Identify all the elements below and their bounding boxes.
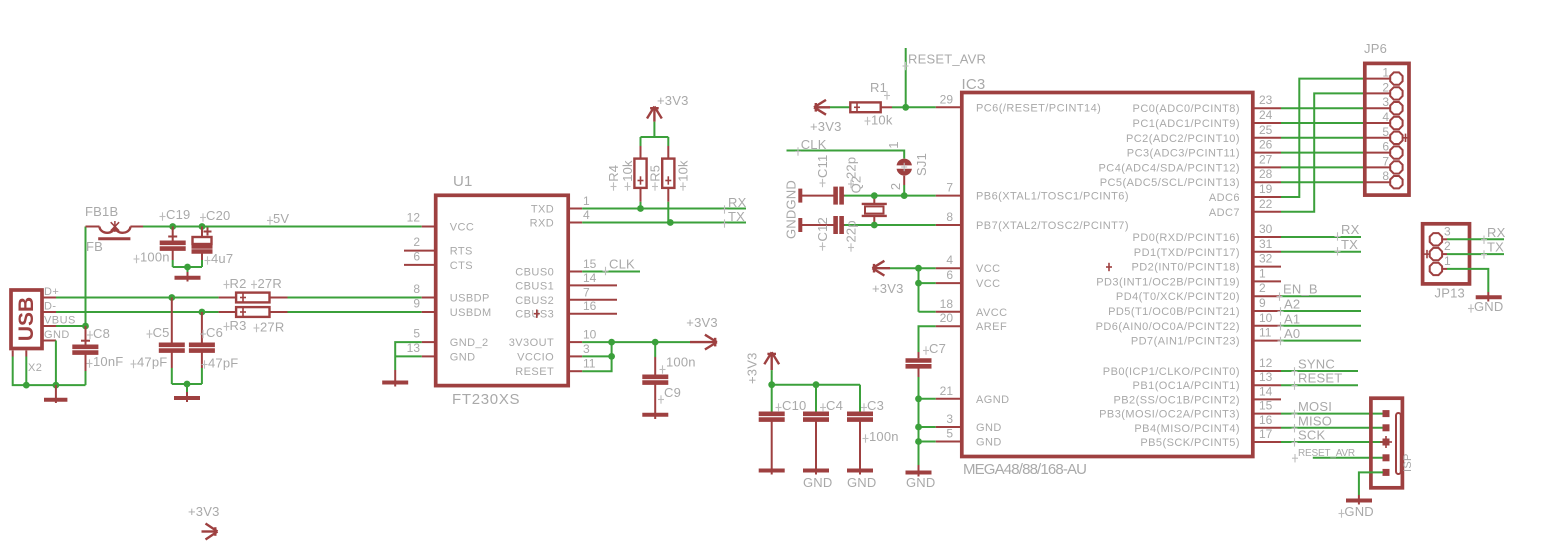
svg-text:PD2(INT0/PCINT18): PD2(INT0/PCINT18) [1131,262,1240,274]
svg-text:PD7(AIN1/PCINT23): PD7(AIN1/PCINT23) [1131,336,1240,348]
ground symbol under C10 [759,469,785,473]
IC3 pin 9 PD5 [1108,296,1281,318]
svg-text:9: 9 [1259,296,1266,310]
wire XTAL1 net [845,195,936,197]
svg-text:16: 16 [1259,413,1273,427]
svg-text:24: 24 [1259,108,1273,122]
junction D- / C6 [199,309,206,316]
IC3 pin 5 GND [936,427,1002,449]
svg-text:10: 10 [1259,311,1273,325]
svg-text:GND: GND [803,475,833,490]
svg-text:MISO: MISO [1298,413,1332,428]
junction bus C4 [813,381,820,388]
IC3 pin 7 PB6 [936,181,1129,203]
IC3 pin 21 AGND [936,384,1010,406]
ground symbol under C5 C6 [174,392,200,402]
svg-text:TX: TX [1487,240,1504,255]
svg-text:A1: A1 [1284,311,1300,326]
svg-text:A2: A2 [1284,297,1300,312]
svg-text:14: 14 [583,271,597,285]
label RESET_AVR at ISP [1292,448,1355,463]
svg-text:11: 11 [583,357,596,371]
svg-text:MOSI: MOSI [1298,399,1332,414]
svg-text:7: 7 [946,181,953,195]
svg-text:VCCIO: VCCIO [517,351,554,363]
svg-text:28: 28 [1259,167,1273,181]
svg-text:5: 5 [1382,125,1389,139]
svg-text:C12: C12 [815,217,830,241]
svg-text:2: 2 [1382,80,1389,94]
junction C9 tap [652,339,659,346]
svg-text:SCK: SCK [1298,428,1325,443]
IC3 pin 20 AREF [936,311,1007,333]
IC3 pin 14 PB2 [1113,384,1281,406]
JP6 pin 6 [1365,140,1403,159]
capacitor C8 10nF [72,326,123,371]
IC3 pin 25 PC2 [1126,123,1281,145]
svg-text:100n: 100n [666,355,696,370]
svg-text:C3: C3 [867,398,884,413]
ground symbol left of C12 [798,218,802,232]
svg-text:47pF: 47pF [137,355,167,370]
svg-text:PB7(XTAL2/TOSC2/PCINT7): PB7(XTAL2/TOSC2/PCINT7) [976,220,1129,232]
IC3 pin 13 PB1 [1133,370,1281,392]
supply +3V3 at VCC pins [872,261,904,296]
wire PC3 to JP6 pin6 [1281,152,1365,154]
ground symbol under C7 chain [906,465,936,490]
label A0 [1278,326,1301,345]
svg-text:PD1(TXD/PCINT17): PD1(TXD/PCINT17) [1134,247,1240,259]
svg-text:PD4(T0/XCK/PCINT20): PD4(T0/XCK/PCINT20) [1116,291,1240,303]
svg-text:ISP: ISP [1402,453,1414,472]
wire TX net pin31 [1281,251,1361,253]
svg-text:9: 9 [413,297,420,311]
U1 pin 14 CBUS1 [515,271,617,293]
wire CLK net at IC [787,151,905,159]
wire A2 net [1281,310,1361,312]
svg-text:21: 21 [940,384,954,398]
connector JP6 [1364,41,1409,195]
svg-text:PB6(XTAL1/TOSC1/PCINT6): PB6(XTAL1/TOSC1/PCINT6) [976,191,1129,203]
U1 pin 3 VCCIO [517,342,590,364]
svg-text:3: 3 [1444,224,1451,238]
svg-text:AGND: AGND [976,394,1010,406]
junction usb shield bus [23,382,30,389]
capacitor C20 4u7 polarized [192,208,234,266]
svg-text:5: 5 [413,327,420,341]
junction R4 RX [637,205,644,212]
svg-text:+3V3: +3V3 [657,93,689,108]
svg-text:5V: 5V [273,211,289,226]
svg-text:VBUS: VBUS [44,315,76,327]
svg-text:C4: C4 [826,398,843,413]
capacitor C3 100n [847,385,899,475]
svg-text:1: 1 [1259,266,1266,280]
junction VCC pin6 [915,280,922,287]
wire U1 gnd pins [395,342,422,370]
junction usb gnd pin bus [53,382,60,389]
svg-text:8: 8 [946,210,953,224]
svg-text:PB1(OC1A/PCINT1): PB1(OC1A/PCINT1) [1133,380,1240,392]
wire PC2 to JP6 pin5 [1281,137,1365,139]
svg-text:CBUS1: CBUS1 [515,280,554,292]
junction GND pin5 [915,438,922,445]
svg-text:CBUS3: CBUS3 [515,309,554,321]
svg-text:VCC: VCC [450,222,475,234]
svg-text:FB: FB [86,239,103,254]
svg-text:GND: GND [847,475,877,490]
capacitor C19 100n [134,207,191,265]
wire JP13 pin1 to gnd [1447,269,1488,292]
supply +3V3 right of U1 [686,315,718,350]
svg-text:PD0(RXD/PCINT16): PD0(RXD/PCINT16) [1133,232,1240,244]
ISP pad MISO [1383,424,1390,431]
ground symbol under JP13 [1468,292,1504,314]
junction SJ1 XTAL1 [901,192,908,199]
IC3 pin 31 PD1 [1134,237,1281,259]
label JP13 RX [1481,225,1506,244]
wire RX net from TXD [582,208,746,210]
label MOSI [1292,399,1333,418]
wire JP13 TX [1447,253,1504,255]
svg-text:GND: GND [976,437,1002,449]
wire PC1 to JP6 pin4 [1281,122,1365,124]
wire 3V3OUT net [582,342,690,371]
U1 pin 1 TXD [531,194,590,216]
svg-text:VCC: VCC [976,263,1001,275]
resistor R4 10k [606,146,647,209]
label TX [722,209,746,228]
JP6 pin 1 [1365,66,1403,85]
U1 pin 6 CTS [404,249,473,272]
svg-text:GND: GND [44,329,70,341]
capacitor C9 100n [642,342,695,419]
svg-text:RESET_AVR: RESET_AVR [908,52,986,67]
svg-text:7: 7 [583,285,590,299]
connector JP13 [1423,224,1470,301]
svg-text:+3V3: +3V3 [686,315,718,330]
IC3 pin 29 PC6 [936,92,1101,114]
solder jumper SJ1 [886,141,929,195]
svg-text:18: 18 [940,297,954,311]
connector ISP [1371,398,1414,488]
IC3 pin 28 PC5 [1100,167,1281,189]
wire AGND GND chain [919,377,936,465]
IC3 pin 4 VCC [936,253,1001,275]
svg-text:GND: GND [784,210,799,240]
svg-text:C9: C9 [664,385,681,400]
svg-text:ADC7: ADC7 [1209,207,1240,219]
svg-text:26: 26 [1259,138,1273,152]
svg-text:PB2(SS/OC1B/PCINT2): PB2(SS/OC1B/PCINT2) [1113,394,1240,406]
wire ISP gnd [1359,472,1383,495]
svg-text:8: 8 [413,282,420,296]
JP13 pin 1 [1430,254,1451,275]
svg-text:31: 31 [1259,237,1273,251]
JP13 pin 2 [1424,239,1451,260]
junction C19 C20 gnd [184,264,191,271]
svg-text:100n: 100n [869,429,899,444]
ISP pad SCK with origin cross [1380,436,1392,448]
capacitor C12 22p [802,216,859,252]
svg-text:23: 23 [1259,93,1273,107]
wire MOSI net to ISP [1281,413,1383,415]
capacitor C11 22p [802,155,859,205]
U1 pin 9 USBDM [413,297,491,320]
label EN_B [1277,282,1318,301]
svg-text:VCC: VCC [976,278,1001,290]
svg-text:RX: RX [1487,225,1506,240]
junction VBUS / 5V / C8 [82,323,89,330]
wire VCC net to pins 4 6 18 [890,268,936,312]
svg-text:PB5(SCK/PCINT5): PB5(SCK/PCINT5) [1140,437,1240,449]
svg-text:C7: C7 [929,341,946,356]
svg-text:1: 1 [583,194,590,208]
capacitor C6 47pF [189,312,239,370]
svg-text:GND: GND [1344,504,1374,519]
IC3 pin 30 PD0 [1133,222,1281,244]
capacitor C10 [759,385,807,475]
svg-text:ADC6: ADC6 [1209,192,1240,204]
svg-text:+3V3: +3V3 [872,281,904,296]
wire AREF to C7 [919,326,936,352]
U1 pin 10 3V3OUT [509,328,597,350]
svg-text:RESET: RESET [515,366,554,378]
svg-text:A0: A0 [1284,326,1300,341]
IC U1 FT230XS box [436,173,569,408]
svg-text:GND_2: GND_2 [450,337,489,349]
label SYNC [1292,357,1335,376]
label TX pin31 [1335,237,1359,256]
junction bus C10 [768,381,775,388]
wire ADC7 to JP6 pin2 [1281,93,1365,211]
junction GND pin3 [915,424,922,431]
svg-text:PB3(MOSI/OC2A/PCINT3): PB3(MOSI/OC2A/PCINT3) [1099,409,1240,421]
svg-text:30: 30 [1259,222,1273,236]
svg-text:47pF: 47pF [208,355,238,370]
IC3 pin 17 PB5 [1140,427,1281,449]
svg-text:EN_B: EN_B [1283,282,1318,297]
svg-text:15: 15 [583,257,597,271]
junction VCC pin4 [915,265,922,272]
ground symbol under C9 [642,413,668,417]
svg-text:RXD: RXD [530,218,555,230]
svg-text:IC3: IC3 [962,76,986,93]
label MISO [1292,413,1333,432]
svg-text:USBDM: USBDM [450,307,492,319]
IC3 pin 15 PB3 [1099,399,1281,421]
ground symbol under C4 [803,471,833,491]
svg-text:USB: USB [15,297,38,341]
IC3 pin 10 PD6 [1096,311,1281,333]
label SCK [1292,428,1326,447]
wire D+ after R2 to U1 [288,297,422,299]
svg-text:22p: 22p [844,220,859,242]
svg-text:16: 16 [583,299,597,313]
svg-text:10k: 10k [871,113,893,128]
IC3 pin 18 AVCC [936,297,1008,319]
usb connector X2 [11,286,76,374]
svg-text:RX: RX [1341,222,1360,237]
svg-text:3: 3 [583,342,590,356]
svg-text:GND: GND [976,422,1002,434]
svg-text:14: 14 [1259,384,1273,398]
svg-text:TX: TX [1341,237,1358,252]
svg-text:C20: C20 [206,208,230,223]
label CLK [603,257,636,276]
svg-text:4: 4 [1382,110,1389,124]
crystal Q2 [849,176,887,225]
supply +3V3 at R1 [810,100,842,134]
wire RESET_AVR net to ISP [1313,457,1383,459]
U1 pin 11 RESET [515,357,596,379]
resistor R5 10k [648,146,691,223]
svg-text:13: 13 [1259,370,1273,384]
capacitor C5 47pF [131,298,185,370]
svg-text:PC2(ADC2/PCINT10): PC2(ADC2/PCINT10) [1126,133,1240,145]
svg-text:4: 4 [946,253,953,267]
resistor R3 27R [219,307,288,334]
svg-text:RESET: RESET [1298,371,1342,386]
IC3 pin 1 PD3 [1096,266,1281,288]
svg-text:TX: TX [728,209,745,224]
wire C5 C6 to gnd [172,368,202,392]
svg-text:PC3(ADC3/PCINT11): PC3(ADC3/PCINT11) [1127,148,1240,160]
svg-text:R2: R2 [230,276,247,291]
svg-text:27: 27 [1259,152,1273,166]
wire C8 to gnd bus [85,371,87,385]
svg-text:MEGA48/88/168-AU: MEGA48/88/168-AU [963,461,1086,478]
label RESET_AVR [903,52,987,71]
JP6 pin 4 [1365,110,1403,129]
ISP pad MOSI [1383,410,1390,417]
label RESET [1292,371,1343,390]
wire XTAL2 net [845,224,936,226]
ground symbol under USB [44,385,67,403]
wire PC5 to JP6 pin8 [1281,181,1365,183]
IC3 pin 2 PD4 [1116,281,1281,303]
wire 5V vertical from ferrite to VBUS [85,227,87,327]
JP6 pin 2 [1365,80,1403,99]
JP6 pin 8 [1365,169,1403,188]
svg-text:R5: R5 [648,165,663,182]
svg-text:1: 1 [886,141,901,148]
wire JP13 RX [1447,238,1504,240]
svg-text:CBUS2: CBUS2 [515,295,554,307]
svg-text:PC6(/RESET/PCINT14): PC6(/RESET/PCINT14) [976,102,1101,114]
IC3 pin 26 PC3 [1127,138,1281,160]
label 5V [267,211,289,226]
svg-text:10k: 10k [620,160,635,182]
wire RESET_AVR vertical [905,48,907,107]
resistor R1 10k [830,80,906,128]
wire SCK net to ISP [1281,441,1383,443]
svg-text:10: 10 [583,328,597,342]
wire PC4 to JP6 pin7 [1281,166,1365,168]
svg-text:X2: X2 [28,362,42,374]
supply +3V3 at cap bank [745,352,780,384]
svg-text:PD3(INT1/OC2B/PCINT19): PD3(INT1/OC2B/PCINT19) [1096,276,1240,288]
svg-text:PC0(ADC0/PCINT8): PC0(ADC0/PCINT8) [1133,103,1240,115]
IC3 pin 27 PC4 [1099,152,1281,174]
svg-text:GND: GND [450,351,476,363]
ground symbol under U1 [382,370,408,387]
svg-text:+3V3: +3V3 [810,119,842,134]
svg-text:FT230XS: FT230XS [452,391,520,408]
svg-text:RTS: RTS [450,246,473,258]
label A2 [1278,297,1301,316]
IC3 pin 11 PD7 [1131,326,1281,348]
supply +3V3 above R4 R5 [647,93,689,122]
svg-text:PC5(ADC5/SCL/PCINT13): PC5(ADC5/SCL/PCINT13) [1100,177,1240,189]
junction RESET_AVR R1 [902,104,909,111]
svg-text:15: 15 [1259,399,1273,413]
junction VCCIO vertical mid [608,353,615,360]
IC3 pin 19 ADC6 [1209,182,1281,204]
svg-text:C11: C11 [815,155,830,178]
svg-text:1: 1 [1444,254,1451,268]
svg-text:2: 2 [1444,239,1451,253]
svg-text:6: 6 [946,268,953,282]
wire ADC6 to JP6 pin1 [1281,79,1365,197]
svg-text:SJ1: SJ1 [914,153,929,176]
wire CLK net at U1 [582,271,640,273]
svg-text:17: 17 [1259,427,1273,441]
ground symbol under C3 [847,471,877,491]
label RX pin30 [1335,222,1360,241]
svg-text:22: 22 [1259,197,1273,211]
svg-text:CLK: CLK [609,257,635,272]
svg-text:3V3OUT: 3V3OUT [509,337,555,349]
svg-text:32: 32 [1259,252,1273,266]
wire SYNC net [1281,370,1358,372]
svg-text:CBUS0: CBUS0 [515,267,554,279]
svg-text:C8: C8 [93,326,110,341]
junction C5 C6 gnd [184,381,191,388]
svg-text:CTS: CTS [450,260,473,272]
svg-text:29: 29 [940,92,954,106]
wire D- net [56,311,219,313]
svg-text:10k: 10k [676,160,691,182]
U1 pin 5 GND_2 [413,327,488,350]
svg-text:27R: 27R [258,276,282,291]
U1 pin 12 VCC [407,211,475,234]
svg-text:R1: R1 [870,80,887,95]
wire R1 to IC pin 29 [906,106,936,108]
IC3 pin 22 ADC7 [1209,197,1281,219]
label JP13 TX [1481,240,1504,259]
svg-text:22p: 22p [844,157,859,179]
IC3 pin 3 GND [936,412,1002,434]
svg-text:SYNC: SYNC [1298,357,1335,372]
label A1 [1278,311,1301,330]
wire PC0 to JP6 pin3 [1281,107,1365,109]
svg-text:4u7: 4u7 [211,251,233,266]
IC3 pin 32 PD2 [1131,252,1281,274]
svg-text:PD5(T1/OC0B/PCINT21): PD5(T1/OC0B/PCINT21) [1108,306,1240,318]
wire C19 C20 to gnd [173,260,202,272]
svg-text:D+: D+ [44,286,59,298]
svg-text:25: 25 [1259,123,1273,137]
svg-text:27R: 27R [260,320,284,335]
ground symbol under C19 C20 [175,272,201,282]
svg-text:AREF: AREF [976,321,1007,333]
svg-text:2: 2 [1259,281,1266,295]
svg-text:RESET_AVR: RESET_AVR [1298,448,1355,459]
U1 pin 7 CBUS2 [515,285,617,307]
svg-text:6: 6 [413,249,420,263]
ground symbol under ISP [1339,495,1374,519]
